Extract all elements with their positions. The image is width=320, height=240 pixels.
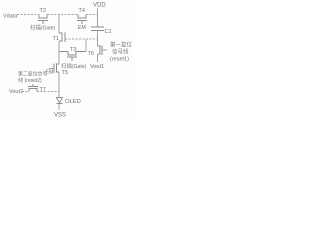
wire T1 gate to right rail — [65, 38, 98, 40]
transistor T1 — [53, 33, 66, 43]
power VSS label — [54, 113, 66, 119]
svg-text:T7: T7 — [40, 87, 46, 93]
transistor T3 — [59, 47, 86, 61]
svg-text:(Gate): (Gate) — [72, 64, 87, 70]
svg-text:EM: EM — [78, 25, 86, 31]
svg-text:T5: T5 — [62, 70, 68, 76]
label scan (Gate) for T2 gate — [30, 24, 56, 32]
wire T1 to T3 junction — [58, 33, 60, 64]
svg-text:第一复位: 第一复位 — [110, 41, 133, 49]
capacitor C1 — [91, 27, 112, 35]
wire EM to T5 gate — [49, 68, 54, 70]
svg-text:Vout1: Vout1 — [90, 64, 104, 70]
transistor T4 — [77, 8, 87, 24]
transistor T2 — [38, 8, 48, 24]
svg-text:T3: T3 — [70, 47, 76, 53]
svg-text:VSS: VSS — [54, 113, 66, 119]
label scan (Gate) for T3 gate — [61, 62, 87, 70]
svg-text:Vdata: Vdata — [3, 14, 18, 20]
svg-text:T1: T1 — [53, 36, 59, 42]
svg-text:第二复位信号: 第二复位信号 — [18, 71, 47, 78]
wire OLED to VSS — [58, 104, 60, 111]
svg-text:OLED: OLED — [65, 99, 81, 105]
svg-text:线: 线 — [18, 76, 23, 84]
svg-text:VDD: VDD — [93, 3, 106, 9]
svg-text:扫描: 扫描 — [30, 24, 42, 32]
wire C1 bottom down right rail to T6 — [97, 31, 99, 47]
svg-text:信号线: 信号线 — [112, 48, 129, 56]
label EM for T4 gate — [78, 25, 86, 31]
svg-text:(reset2): (reset2) — [25, 78, 43, 84]
transistor T6 — [88, 46, 103, 58]
wire T6 gate to reset1 — [102, 49, 107, 51]
svg-text:扫描: 扫描 — [61, 62, 73, 70]
label first reset signal line (reset1) — [110, 41, 133, 63]
wire VDD rail down to C1 — [97, 8, 99, 27]
svg-text:(Gate): (Gate) — [41, 26, 56, 32]
wire T5 down left rail to OLED — [58, 72, 60, 97]
wire T4 to VDD rail — [86, 14, 98, 16]
svg-text:T4: T4 — [79, 8, 85, 14]
transistor T5 — [54, 64, 68, 77]
svg-text:(reset1): (reset1) — [110, 57, 129, 63]
svg-text:T6: T6 — [88, 51, 94, 57]
svg-text:T2: T2 — [40, 8, 46, 14]
diode OLED — [57, 98, 81, 106]
wire T2 to T4 with junction at node A — [47, 14, 78, 16]
wire T6 down to Vout1 — [97, 54, 99, 62]
wire T7 to left rail — [37, 91, 59, 93]
svg-text:Vout2: Vout2 — [9, 89, 23, 95]
power VDD label — [93, 3, 106, 9]
svg-text:C1: C1 — [105, 29, 112, 35]
node Vout1 label — [90, 64, 104, 70]
wire Vdata to T2 — [17, 14, 39, 16]
node Vdata label — [3, 14, 18, 20]
transistor T7 — [28, 84, 46, 93]
label EM for T5 gate — [46, 70, 54, 76]
wire left rail node A down to T1 — [58, 15, 60, 34]
wire Vout2 to T7 — [22, 91, 29, 93]
label second reset signal line (reset2) — [18, 71, 47, 85]
node Vout2 label — [9, 89, 23, 95]
wire T3 right end up to T1 gate line — [85, 39, 87, 52]
